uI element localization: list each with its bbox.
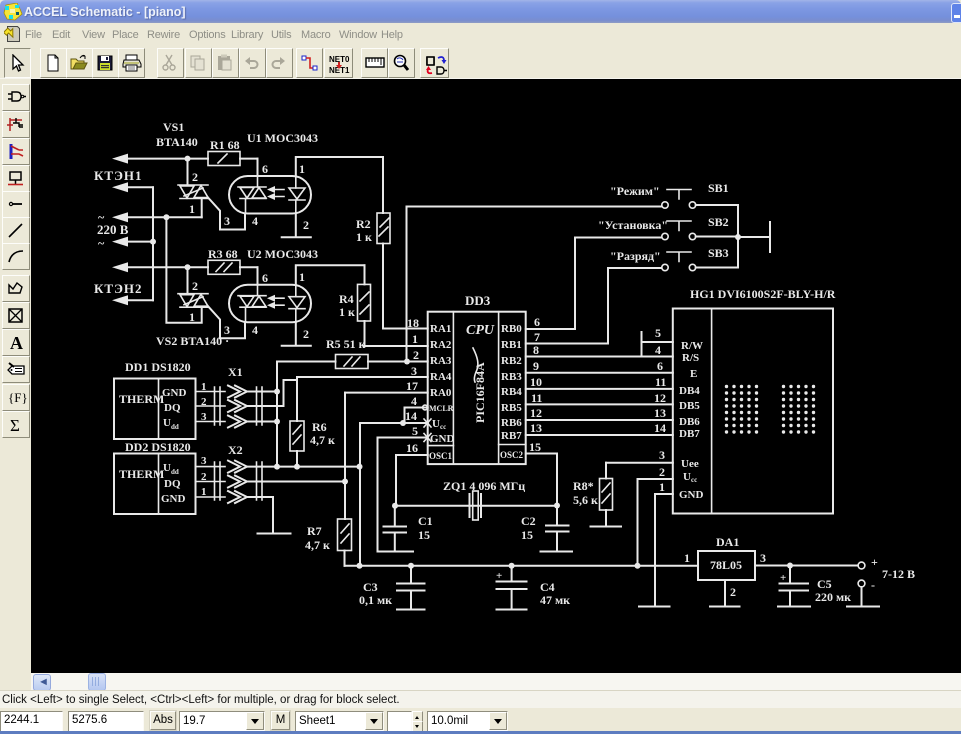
svg-text:RA1: RA1 <box>430 323 451 335</box>
svg-text:4,7 к: 4,7 к <box>305 538 330 552</box>
display pin names <box>679 340 704 501</box>
svg-text:cc: cc <box>691 476 697 484</box>
svg-text:13: 13 <box>654 406 666 420</box>
svg-text:~: ~ <box>98 210 105 224</box>
svg-text:R7: R7 <box>307 524 322 538</box>
svg-text:1: 1 <box>299 270 305 284</box>
ground HG1 <box>639 606 670 608</box>
pin 6 U1 <box>258 159 269 176</box>
svg-text:RB2: RB2 <box>501 355 522 367</box>
svg-text:14: 14 <box>405 409 417 423</box>
svg-text:Uee: Uee <box>681 458 699 470</box>
svg-text:HG1 DVI6100S2F-BLY-H/R: HG1 DVI6100S2F-BLY-H/R <box>690 287 836 301</box>
ground R8 <box>591 526 622 528</box>
svg-text:5,6 к: 5,6 к <box>573 493 598 507</box>
svg-text:+: + <box>871 555 878 569</box>
svg-text:THERM: THERM <box>119 467 164 481</box>
svg-text:C1: C1 <box>418 514 433 528</box>
ground C2 <box>541 551 573 553</box>
svg-text:2: 2 <box>201 471 207 483</box>
svg-text:R/S: R/S <box>682 352 699 364</box>
wire SB common vertical <box>737 205 739 268</box>
wire RA0 pin17 <box>345 379 428 393</box>
svg-text:DD2 DS1820: DD2 DS1820 <box>125 440 191 454</box>
wire GND pin5 <box>378 424 432 552</box>
svg-text:~: ~ <box>98 236 105 250</box>
svg-text:11: 11 <box>531 391 542 405</box>
wire arrow a5 <box>112 262 208 272</box>
resistor R7 4.7k <box>305 519 352 566</box>
switch SB2 <box>575 215 741 240</box>
switch SB1 <box>407 181 739 208</box>
svg-text:2: 2 <box>303 218 309 232</box>
wire RB7 pin13 to DB7 <box>526 421 673 435</box>
wire SB1 down to RA3 <box>406 207 408 362</box>
wire GND pin1 <box>655 480 673 607</box>
svg-text:1 к: 1 к <box>339 305 355 319</box>
svg-text:2: 2 <box>201 396 207 408</box>
svg-text:1: 1 <box>412 332 418 346</box>
wire arrow a6 <box>112 295 153 305</box>
wire DA1 pin2 to ground <box>725 580 736 607</box>
svg-text:RB4: RB4 <box>501 386 522 398</box>
wire arrow a1 <box>112 154 208 164</box>
ground C3 <box>397 609 425 611</box>
svg-text:R6: R6 <box>312 420 327 434</box>
svg-text:+: + <box>780 572 786 584</box>
pin 2 U1 termination <box>282 214 311 238</box>
pin 2 U2 termination <box>282 322 311 346</box>
svg-text:12: 12 <box>530 406 542 420</box>
terminal minus <box>858 578 875 607</box>
svg-text:0,1 мк: 0,1 мк <box>359 593 392 607</box>
svg-text:U2 MOC3043: U2 MOC3043 <box>247 247 318 261</box>
svg-text:9: 9 <box>533 359 539 373</box>
opto-coupler U2 MOC3043 <box>229 247 318 322</box>
svg-text:GND: GND <box>679 489 704 501</box>
pin 1 U1 <box>296 157 383 176</box>
svg-text:DQ: DQ <box>164 478 181 490</box>
svg-text:U: U <box>432 418 440 430</box>
wire R1 to U1 pin6 <box>240 158 258 160</box>
resistor R8 5.6k <box>573 463 613 527</box>
svg-text:2: 2 <box>413 348 419 362</box>
node dot a3 <box>163 214 169 220</box>
svg-text:6: 6 <box>657 359 663 373</box>
wire RB0 pin6 to SB2 <box>526 238 575 330</box>
wire MCLR pin4 <box>405 394 428 423</box>
svg-text:RB5: RB5 <box>501 402 522 414</box>
svg-text:4: 4 <box>411 394 417 408</box>
wire X1 row2 stub <box>247 380 297 406</box>
svg-text:4: 4 <box>655 343 661 357</box>
svg-text:CPU: CPU <box>466 323 495 338</box>
node dot VS1 top <box>185 156 191 162</box>
svg-text:4: 4 <box>252 323 258 337</box>
wire 220V to VS2 <box>166 217 201 322</box>
svg-text:12: 12 <box>654 391 666 405</box>
cpu squiggle mark <box>473 348 478 382</box>
wire VS1 pin1 <box>189 199 202 218</box>
svg-text:C5: C5 <box>817 577 832 591</box>
svg-text:R1 68: R1 68 <box>210 138 240 152</box>
triac VS2 <box>178 294 208 308</box>
svg-text:"Разряд": "Разряд" <box>610 249 661 263</box>
pin 1 U2 <box>296 265 365 284</box>
svg-text:DD3: DD3 <box>465 293 491 308</box>
svg-text:R3 68: R3 68 <box>208 247 238 261</box>
svg-text:C2: C2 <box>521 514 536 528</box>
display dot matrix <box>725 385 815 434</box>
wire DA1 output <box>755 563 858 569</box>
svg-text:RB6: RB6 <box>501 417 522 429</box>
svg-text:КТЭН1: КТЭН1 <box>94 168 143 183</box>
svg-text:RB0: RB0 <box>501 323 522 335</box>
svg-text:R8*: R8* <box>573 479 594 493</box>
svg-text:R4: R4 <box>339 292 354 306</box>
wire RA2 pin1 <box>365 332 428 346</box>
resistor R4 <box>339 265 371 346</box>
svg-text:C4: C4 <box>540 580 555 594</box>
svg-text:3: 3 <box>224 323 230 337</box>
svg-text:VS1: VS1 <box>163 120 184 134</box>
resistor R3 <box>208 247 240 274</box>
wire RA4 pin17 <box>297 364 428 378</box>
svg-text:13: 13 <box>530 421 542 435</box>
svg-text:2: 2 <box>192 279 198 293</box>
ground X2 <box>258 533 291 535</box>
wire X2 row1 (+5 net) <box>247 464 363 470</box>
svg-text:DQ: DQ <box>164 402 181 414</box>
terminal plus <box>858 555 878 569</box>
wire arrow a4 <box>112 237 156 247</box>
svg-text:1: 1 <box>684 551 690 565</box>
cpu DD3 box <box>428 293 526 464</box>
svg-text:1: 1 <box>201 381 207 393</box>
svg-text:3: 3 <box>224 214 230 228</box>
svg-text:GND: GND <box>162 387 187 399</box>
capacitor C4 <box>496 566 570 610</box>
wire R5 left to net <box>277 362 336 467</box>
pin 6 U2 <box>258 267 269 285</box>
sensor DD2 DS1820 <box>114 440 196 514</box>
svg-text:X1: X1 <box>228 365 243 379</box>
wire RB6 pin12 to DB6 <box>526 406 673 420</box>
switch SB3 <box>608 246 738 271</box>
svg-text:RB7: RB7 <box>501 430 522 442</box>
svg-text:cc: cc <box>440 423 446 431</box>
svg-text:DD1 DS1820: DD1 DS1820 <box>125 360 191 374</box>
wire R3 to U2 pin6 <box>240 266 258 268</box>
ground DA1 <box>710 606 740 608</box>
wire VS2 pin2 <box>188 267 199 293</box>
resistor R1 <box>208 138 240 166</box>
svg-text:GND: GND <box>430 433 455 445</box>
svg-text:SB2: SB2 <box>708 215 729 229</box>
pins DD1 1,2,3 <box>196 381 226 425</box>
svg-text:{F}: {F} <box>8 390 27 405</box>
label VS1 BTA140 <box>156 120 198 149</box>
svg-text:THERM: THERM <box>119 392 164 406</box>
svg-text:R/W: R/W <box>681 340 703 352</box>
cpu right pin names <box>500 323 524 460</box>
wire X2 gnd <box>247 497 273 534</box>
wire DQ vertical to R7 <box>342 393 348 519</box>
svg-text:BTA140: BTA140 <box>156 135 198 149</box>
svg-text:-: - <box>871 578 875 592</box>
svg-text:+: + <box>496 570 502 582</box>
svg-text:X2: X2 <box>228 443 243 457</box>
svg-text:1: 1 <box>659 480 665 494</box>
wire X1 row3 <box>247 421 277 423</box>
svg-text:MCLR: MCLR <box>429 404 454 413</box>
svg-text:U: U <box>683 471 691 483</box>
wire X2 row2 <box>247 481 345 483</box>
wire arrow a2 <box>112 182 153 192</box>
svg-text:14: 14 <box>654 421 666 435</box>
svg-text:2: 2 <box>192 170 198 184</box>
wire RB3 pin9 to E <box>526 359 673 373</box>
sensor DD1 DS1820 <box>114 360 196 439</box>
svg-text:ZQ1 4 096 МГц: ZQ1 4 096 МГц <box>443 479 525 493</box>
svg-text:1: 1 <box>201 486 207 498</box>
regulator DA1 78L05 <box>684 535 766 580</box>
svg-text:220 мк: 220 мк <box>815 590 851 604</box>
svg-text:4: 4 <box>252 214 258 228</box>
resistor R6 4.7k <box>290 377 335 470</box>
capacitor C3 <box>359 566 425 610</box>
wire crystal line <box>392 503 560 509</box>
svg-text:3: 3 <box>659 448 665 462</box>
svg-text:47 мк: 47 мк <box>540 593 570 607</box>
svg-text:3: 3 <box>760 551 766 565</box>
svg-text:VS2 BTA140 ·: VS2 BTA140 · <box>156 334 229 348</box>
wire Ucc pin2 <box>638 465 673 566</box>
wire VS2 gate to U2 pin4 <box>208 306 258 338</box>
svg-text:1: 1 <box>299 162 305 176</box>
svg-text:3: 3 <box>411 364 417 378</box>
svg-text:6: 6 <box>262 271 268 285</box>
svg-text:2: 2 <box>659 465 665 479</box>
svg-text:"Установка": "Установка" <box>598 218 668 232</box>
wire RA3 pin3 <box>368 348 428 365</box>
svg-text:5: 5 <box>655 326 661 340</box>
svg-text:OSC2: OSC2 <box>500 450 524 460</box>
wire RB4 pin10 to DB4 <box>526 375 673 389</box>
svg-text:SB3: SB3 <box>708 246 729 260</box>
display HG1 <box>673 287 836 514</box>
svg-text:1: 1 <box>189 202 195 216</box>
svg-text:2: 2 <box>730 585 736 599</box>
crystal ZQ1 <box>443 479 525 520</box>
wire R/W tie stub <box>642 326 673 357</box>
svg-text:6: 6 <box>534 315 540 329</box>
svg-text:DB7: DB7 <box>679 428 700 440</box>
svg-text:DB5: DB5 <box>679 400 700 412</box>
wire arrow a3 (220V phase) <box>112 212 202 222</box>
capacitor C1 <box>384 506 433 552</box>
svg-text:1 к: 1 к <box>356 230 372 244</box>
wire RB2 pin8 to R/S <box>526 343 673 357</box>
svg-text:RA0: RA0 <box>430 387 452 399</box>
wire common left vertical <box>152 187 154 300</box>
wire VS1 pin2 <box>188 159 199 185</box>
capacitor C2 <box>521 506 569 552</box>
svg-text:R5 51 к: R5 51 к <box>326 337 366 351</box>
svg-text:PIC16F84A: PIC16F84A <box>473 362 487 423</box>
node dot VS2 top <box>185 264 191 270</box>
svg-text:U: U <box>163 417 171 429</box>
wire RB5 pin11 to DB5 <box>526 391 673 405</box>
svg-text:18: 18 <box>407 316 419 330</box>
svg-text:RA4: RA4 <box>430 371 452 383</box>
opto-coupler U1 MOC3043 <box>229 131 318 214</box>
svg-text:220 В: 220 В <box>97 222 129 237</box>
svg-text:C3: C3 <box>363 580 378 594</box>
ground C4 <box>497 609 527 611</box>
wire X1 row1 <box>247 391 277 393</box>
svg-text:6: 6 <box>262 162 268 176</box>
svg-text:E: E <box>690 368 697 380</box>
svg-text:3: 3 <box>201 455 207 467</box>
svg-text:15: 15 <box>521 528 533 542</box>
svg-text:3: 3 <box>201 411 207 423</box>
svg-text:17: 17 <box>406 379 418 393</box>
wire OSC2 pin15 <box>526 440 557 506</box>
svg-text:КТЭН2: КТЭН2 <box>94 281 143 296</box>
svg-text:4,7 к: 4,7 к <box>310 433 335 447</box>
wire RB1 pin7 to SB3 <box>526 268 608 344</box>
svg-text:RA3: RA3 <box>430 355 452 367</box>
svg-text:DA1: DA1 <box>716 535 739 549</box>
svg-text:5: 5 <box>412 424 418 438</box>
ground terminal <box>847 606 879 608</box>
svg-text:15: 15 <box>529 440 541 454</box>
ground C5 <box>778 606 810 608</box>
svg-text:Σ: Σ <box>10 416 20 435</box>
svg-text:16: 16 <box>406 441 418 455</box>
svg-text:"Режим": "Режим" <box>610 184 660 198</box>
cpu left pin names <box>429 323 455 461</box>
svg-text:15: 15 <box>418 528 430 542</box>
triac VS1 <box>178 185 208 199</box>
svg-text:dd: dd <box>171 423 179 431</box>
wire +5 rail <box>345 563 699 569</box>
svg-text:11: 11 <box>655 375 666 389</box>
node dots on x277 <box>274 389 280 425</box>
svg-text:DB6: DB6 <box>679 416 700 428</box>
wire OSC1 pin16 <box>396 441 428 506</box>
resistor R2 <box>356 157 390 329</box>
wire SB common to terminal <box>738 222 770 252</box>
pins DD2 3,2,1 <box>196 455 226 500</box>
label 220V <box>97 210 129 250</box>
wire RA1 pin18 <box>383 316 428 330</box>
svg-text:GND: GND <box>161 493 186 505</box>
connector X2 <box>228 443 262 503</box>
capacitor C5 <box>780 566 852 607</box>
svg-text:dd: dd <box>171 468 179 476</box>
connector X1 <box>228 365 262 428</box>
svg-text:8: 8 <box>533 343 539 357</box>
wire VS1 gate to U1 pin4 <box>208 198 258 230</box>
svg-text:RA2: RA2 <box>430 339 452 351</box>
wire Uee pin3 <box>606 448 673 463</box>
svg-text:78L05: 78L05 <box>710 558 742 572</box>
svg-text:7: 7 <box>534 330 540 344</box>
svg-text:OSC1: OSC1 <box>429 451 453 461</box>
svg-text:R2: R2 <box>356 217 371 231</box>
svg-text:RB1: RB1 <box>501 339 522 351</box>
svg-text:U1 MOC3043: U1 MOC3043 <box>247 131 318 145</box>
wire Ucc pin14 <box>360 409 431 566</box>
svg-text:A: A <box>10 333 23 353</box>
svg-text:1: 1 <box>189 310 195 324</box>
svg-text:2: 2 <box>303 327 309 341</box>
ground C1 <box>379 551 413 553</box>
svg-text:DB4: DB4 <box>679 385 700 397</box>
svg-text:RB3: RB3 <box>501 371 522 383</box>
svg-text:7-12 В: 7-12 В <box>882 567 915 581</box>
svg-text:U: U <box>163 462 171 474</box>
resistor R5 51k <box>326 337 368 369</box>
svg-text:SB1: SB1 <box>708 181 729 195</box>
svg-text:10: 10 <box>530 375 542 389</box>
